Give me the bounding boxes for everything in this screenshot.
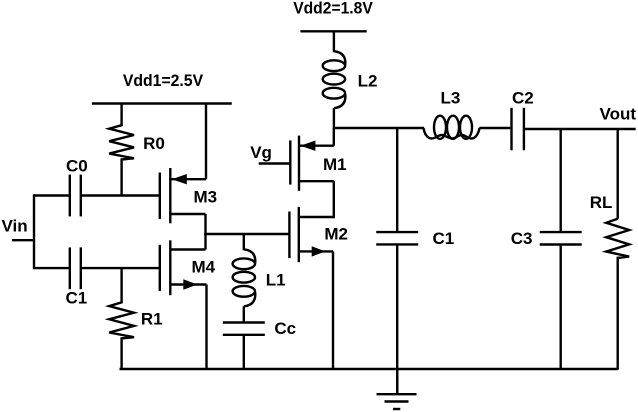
svg-text:C0: C0 [66, 157, 88, 176]
svg-text:Vdd2=1.8V: Vdd2=1.8V [293, 0, 373, 18]
wire Vdd2 to L2 [333, 31, 335, 52]
svg-text:Vg: Vg [250, 143, 272, 162]
wire supply node to L3 [334, 127, 424, 129]
svg-text:C3: C3 [511, 229, 533, 248]
ground rail [120, 368, 618, 370]
capacitor C1 input [70, 247, 81, 289]
wire M3 source to Vdd1 [205, 104, 207, 180]
transistor M1 [290, 136, 334, 191]
wire C1 tank top [396, 128, 398, 232]
wire common drain node to M2 gate [204, 233, 289, 235]
wire L3 to C2 [479, 127, 511, 129]
resistor RL [606, 219, 629, 258]
transistor M2 [289, 207, 333, 262]
svg-text:L3: L3 [441, 89, 461, 108]
wire C1 tank to ground [396, 244, 398, 394]
wire Cc to rail [243, 335, 245, 369]
wire C0 to M3 gate [81, 194, 160, 196]
wire C1 to M4 gate [81, 267, 160, 269]
svg-text:L2: L2 [358, 72, 378, 91]
capacitor C3 [540, 232, 582, 244]
svg-text:RL: RL [590, 193, 613, 212]
wire Vin vertical [33, 194, 35, 269]
svg-text:R1: R1 [141, 309, 163, 328]
power rail Vdd2 [300, 30, 366, 32]
svg-text:Vdd1=2.5V: Vdd1=2.5V [123, 71, 204, 90]
wire M2 source to rail [332, 251, 334, 368]
svg-text:Vout: Vout [600, 104, 637, 123]
capacitor Cc [223, 323, 265, 335]
svg-text:C1: C1 [433, 229, 455, 248]
svg-text:M1: M1 [323, 155, 347, 174]
wire L2 to supply node [333, 108, 335, 129]
wire M1 drain to M2 drain [333, 181, 335, 218]
svg-text:C2: C2 [512, 89, 534, 108]
svg-text:Vin: Vin [2, 216, 28, 235]
capacitor C2 [512, 108, 524, 151]
inductor L3 [424, 116, 480, 139]
power rail Vdd1 [92, 102, 232, 104]
svg-text:L1: L1 [266, 270, 286, 289]
svg-text:R0: R0 [143, 134, 165, 153]
transistor M3 [160, 168, 206, 223]
resistor R1 [109, 268, 134, 368]
inductor L1 [233, 249, 256, 322]
resistor R0 [109, 104, 134, 196]
wire C2 to Vout [524, 128, 636, 130]
capacitor C0 [70, 175, 81, 217]
ground [377, 369, 417, 409]
wire C3 to rail [560, 245, 562, 369]
wire M1 source to supply node [333, 128, 335, 146]
svg-text:M4: M4 [192, 257, 216, 276]
wire RL top [617, 129, 619, 219]
capacitor C1 tank [376, 232, 418, 244]
svg-text:Cc: Cc [274, 319, 296, 338]
wire Vin to C0 [34, 194, 70, 196]
wire Vin stub [12, 239, 34, 241]
wire Vin to C1 [34, 267, 70, 269]
transistor M4 [160, 240, 207, 295]
wire C3 top [560, 129, 562, 232]
inductor L2 [323, 51, 346, 108]
wire RL to rail [617, 257, 619, 370]
svg-text:M2: M2 [324, 225, 348, 244]
wire M4 drain to node [204, 233, 206, 250]
wire Vg stub [259, 162, 291, 164]
svg-text:C1: C1 [66, 289, 88, 308]
wire M3 drain to node [204, 214, 206, 235]
wire node to L1 [243, 234, 245, 250]
wire M4 source to rail [205, 285, 207, 369]
svg-text:M3: M3 [194, 188, 218, 207]
